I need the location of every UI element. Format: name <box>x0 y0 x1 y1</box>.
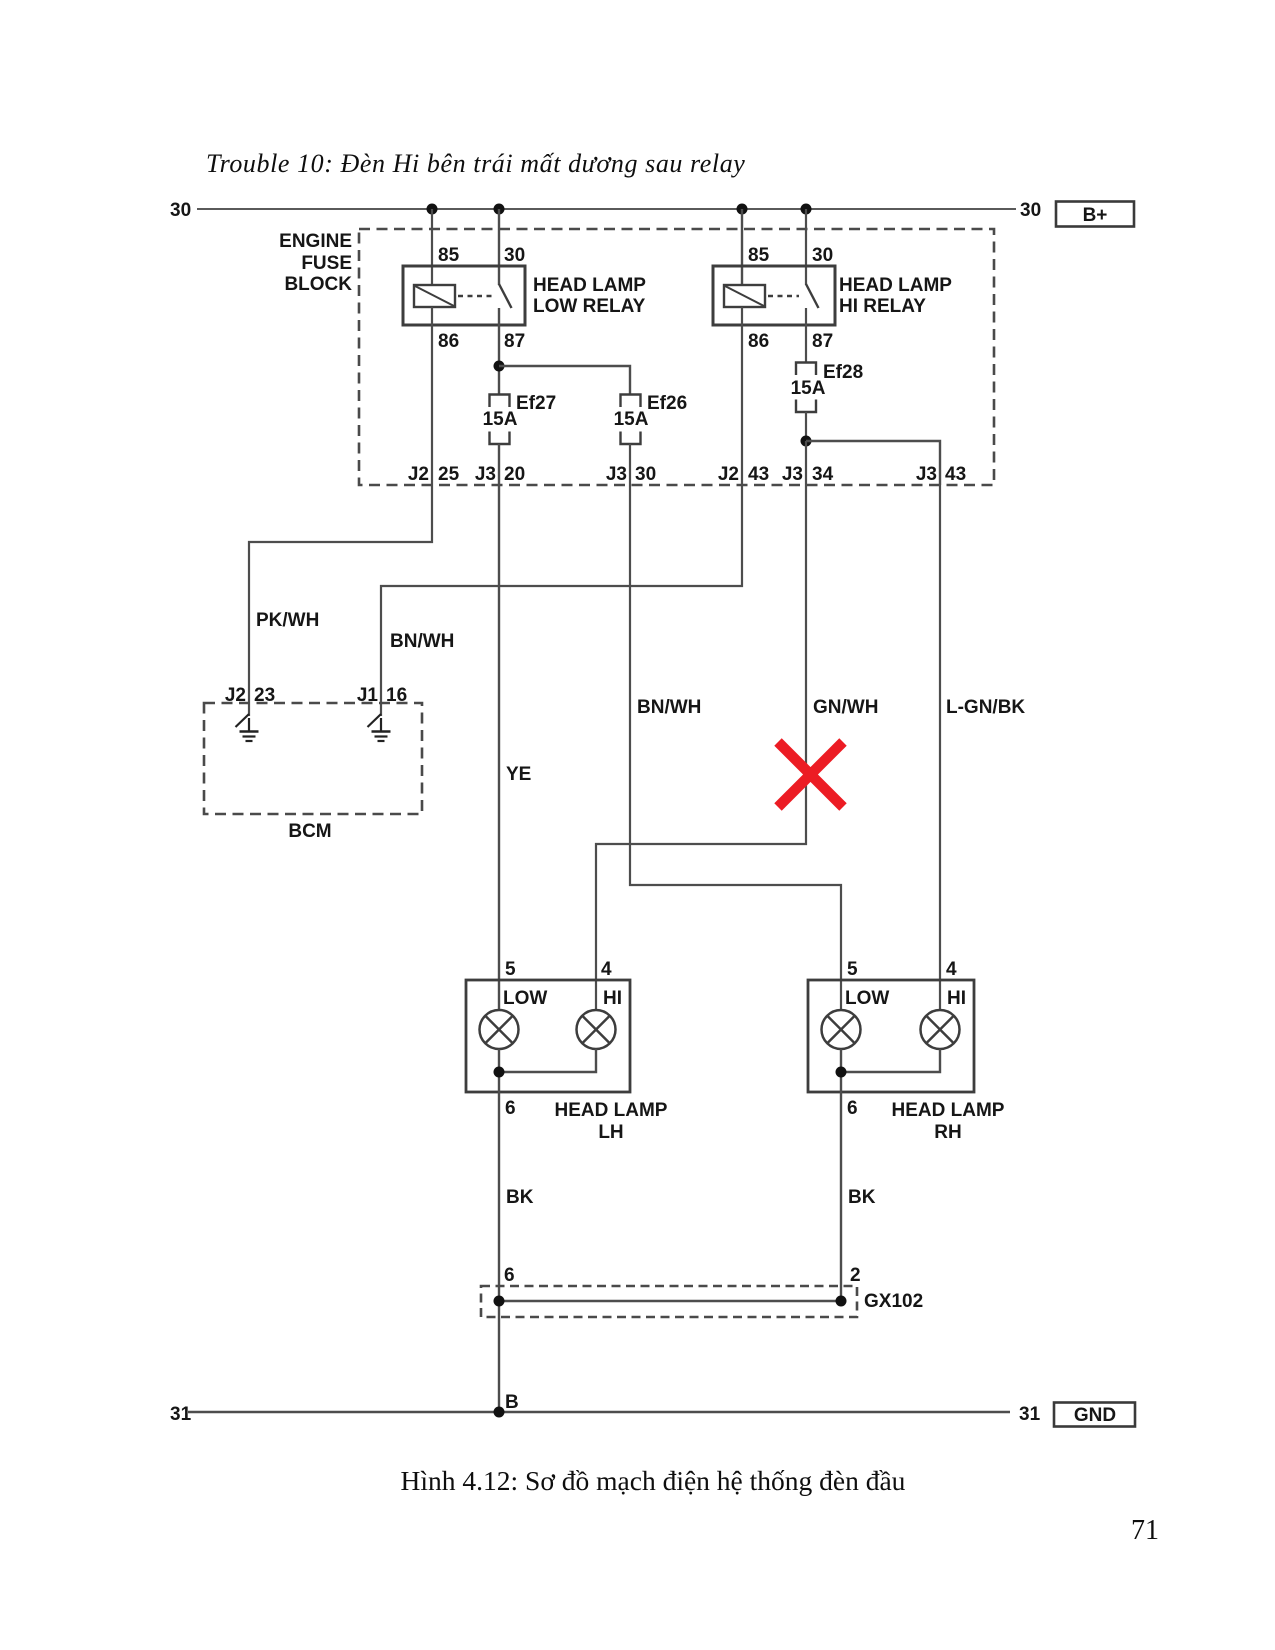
wire YE: fuse Ef27 (J3/20) down to LH LOW lamp <box>498 444 500 1011</box>
svg-text:GN/WH: GN/WH <box>813 697 878 718</box>
svg-text:15A: 15A <box>791 378 826 399</box>
svg-text:FUSE: FUSE <box>301 253 352 274</box>
svg-text:Hình 4.12: Sơ đồ mạch điện hệ: Hình 4.12: Sơ đồ mạch điện hệ thống đèn … <box>401 1465 906 1496</box>
svg-text:B+: B+ <box>1083 205 1108 226</box>
svg-text:ENGINE: ENGINE <box>279 231 352 252</box>
BCM dashed box <box>204 703 422 814</box>
svg-text:BN/WH: BN/WH <box>637 697 701 718</box>
wire RH LOW lamp to pin 6 / GX102 <box>840 1049 842 1301</box>
wire LH LOW lamp to pin 6 / GX102 / ground rail <box>498 1049 500 1412</box>
BCM internal switch + ground at J1/16 <box>368 714 382 727</box>
svg-text:BLOCK: BLOCK <box>284 274 352 295</box>
svg-text:30: 30 <box>504 245 525 266</box>
svg-text:23: 23 <box>254 685 275 706</box>
svg-text:J2: J2 <box>718 464 739 485</box>
svg-text:5: 5 <box>505 959 516 980</box>
splice GX102 dashed box <box>481 1286 857 1317</box>
fault mark red X on GN/WH wire <box>778 742 843 807</box>
fuse Ef26 15A <box>621 395 641 408</box>
svg-text:J3: J3 <box>606 464 627 485</box>
svg-text:86: 86 <box>748 331 769 352</box>
svg-text:J2: J2 <box>408 464 429 485</box>
svg-text:J3: J3 <box>916 464 937 485</box>
relay K1 coil <box>414 285 455 307</box>
wire branch junction to fuse Ef26 <box>499 366 630 395</box>
svg-text:BN/WH: BN/WH <box>390 631 454 652</box>
RH LOW lamp <box>822 1010 861 1049</box>
svg-text:Trouble 10: Đèn Hi bên trái mấ: Trouble 10: Đèn Hi bên trái mất dương sa… <box>206 149 745 178</box>
GND box <box>1054 1403 1135 1427</box>
relay K2 contact arm <box>806 284 819 308</box>
junction RH common <box>836 1067 847 1078</box>
svg-text:30: 30 <box>170 200 191 221</box>
svg-text:30: 30 <box>635 464 656 485</box>
svg-text:J3: J3 <box>475 464 496 485</box>
junction on rail at relay U2 pin30 wire <box>801 204 812 215</box>
wire RH HI lamp bottom to common <box>841 1049 940 1072</box>
svg-text:L-GN/BK: L-GN/BK <box>946 697 1025 718</box>
svg-text:43: 43 <box>748 464 769 485</box>
svg-text:RH: RH <box>934 1122 961 1143</box>
node 31 ground rail <box>188 1411 1010 1413</box>
fuse Ef27 15A <box>490 395 510 408</box>
svg-text:Ef26: Ef26 <box>647 393 687 414</box>
svg-text:15A: 15A <box>614 409 649 430</box>
wire rail to relay K1 pin 85 <box>431 209 433 285</box>
wire K2 pin87 to fuse Ef28 <box>805 308 807 363</box>
svg-text:16: 16 <box>386 685 407 706</box>
svg-text:34: 34 <box>812 464 834 485</box>
svg-text:LOW: LOW <box>503 988 547 1009</box>
RH HI lamp <box>921 1010 960 1049</box>
svg-text:HEAD LAMP: HEAD LAMP <box>533 275 646 296</box>
svg-text:J2: J2 <box>225 685 246 706</box>
svg-text:Ef28: Ef28 <box>823 362 863 383</box>
GX102 internal bus wire <box>499 1300 841 1303</box>
svg-text:87: 87 <box>504 331 525 352</box>
junction ground rail <box>494 1407 505 1418</box>
svg-text:86: 86 <box>438 331 459 352</box>
svg-text:GND: GND <box>1074 1405 1116 1426</box>
svg-text:6: 6 <box>505 1098 516 1119</box>
svg-text:5: 5 <box>847 959 858 980</box>
junction GX102 left <box>494 1296 505 1307</box>
svg-text:20: 20 <box>504 464 525 485</box>
wire branch junction to J3/43 <box>806 441 940 485</box>
junction on rail at relay U1 pin85 wire <box>427 204 438 215</box>
LH HI lamp <box>577 1010 616 1049</box>
svg-text:HI: HI <box>947 988 966 1009</box>
ENGINE FUSE BLOCK dashed enclosure <box>359 229 994 485</box>
svg-text:HEAD LAMP: HEAD LAMP <box>555 1100 668 1121</box>
svg-text:2: 2 <box>850 1265 861 1286</box>
wire K2 86 (J2/43) to BCM J1/16, BN/WH <box>381 307 742 716</box>
svg-text:GX102: GX102 <box>864 1291 923 1312</box>
relay K2 HEAD LAMP HI RELAY box <box>713 266 835 325</box>
svg-text:85: 85 <box>438 245 460 266</box>
wire K1 pin87 to junction <box>498 308 500 395</box>
svg-text:BK: BK <box>506 1187 534 1208</box>
junction on rail at relay U2 pin85 wire <box>737 204 748 215</box>
svg-text:B: B <box>505 1392 519 1413</box>
svg-text:LOW RELAY: LOW RELAY <box>533 296 646 317</box>
svg-text:6: 6 <box>847 1098 858 1119</box>
wire rail to relay K2 pin 85 <box>741 209 743 285</box>
HEAD LAMP RH box <box>808 980 974 1092</box>
relay K1 HEAD LAMP LOW RELAY box <box>403 266 525 325</box>
relay K1 contact arm <box>499 284 512 308</box>
node 30 power rail <box>197 208 1016 210</box>
svg-text:85: 85 <box>748 245 770 266</box>
svg-text:30: 30 <box>812 245 833 266</box>
svg-text:YE: YE <box>506 764 531 785</box>
wire Ef28 to junction <box>805 412 807 441</box>
wire BN/WH: fuse Ef26 (J3/30) down to RH LOW lamp <box>630 444 841 1011</box>
wire rail to relay K1 pin 30 <box>498 209 500 285</box>
svg-text:J3: J3 <box>782 464 803 485</box>
junction on rail at relay U1 pin30 wire <box>494 204 505 215</box>
HEAD LAMP LH box <box>466 980 630 1092</box>
svg-text:J1: J1 <box>357 685 379 706</box>
svg-text:25: 25 <box>438 464 460 485</box>
svg-text:15A: 15A <box>483 409 518 430</box>
svg-text:31: 31 <box>1019 1404 1041 1425</box>
svg-text:71: 71 <box>1131 1515 1159 1546</box>
svg-text:BCM: BCM <box>288 821 331 842</box>
BCM internal switch + ground at J2/23 <box>236 714 250 727</box>
B+ supply box <box>1056 202 1134 227</box>
svg-text:HEAD LAMP: HEAD LAMP <box>892 1100 1005 1121</box>
junction below fuse Ef28 <box>801 436 812 447</box>
svg-text:BK: BK <box>848 1187 876 1208</box>
svg-text:LOW: LOW <box>845 988 889 1009</box>
svg-text:HI: HI <box>603 988 622 1009</box>
wire K1 86 (J2/25) to BCM J2/23, PK/WH <box>249 307 432 716</box>
wire GN/WH: J3/34 down to LH HI lamp <box>596 441 806 1011</box>
svg-text:30: 30 <box>1020 200 1041 221</box>
svg-text:LH: LH <box>598 1122 623 1143</box>
svg-text:Ef27: Ef27 <box>516 393 556 414</box>
junction below K1 pin 87 <box>494 361 505 372</box>
relay K2 coil-contact dashed link <box>768 295 799 297</box>
svg-text:HI RELAY: HI RELAY <box>839 296 926 317</box>
fuse Ef28 15A <box>796 363 816 376</box>
LH LOW lamp <box>480 1010 519 1049</box>
svg-text:6: 6 <box>504 1265 515 1286</box>
relay K1 coil-contact dashed link <box>458 295 492 297</box>
wire LH HI lamp bottom to common <box>499 1049 596 1072</box>
junction LH common <box>494 1067 505 1078</box>
svg-text:43: 43 <box>945 464 966 485</box>
junction GX102 right <box>836 1296 847 1307</box>
relay K2 coil <box>724 285 765 307</box>
svg-text:4: 4 <box>946 959 957 980</box>
svg-text:87: 87 <box>812 331 833 352</box>
wire rail to relay K2 pin 30 <box>805 209 807 285</box>
svg-text:HEAD LAMP: HEAD LAMP <box>839 275 952 296</box>
wire L-GN/BK: J3/43 down to RH HI lamp <box>939 485 941 1011</box>
svg-text:4: 4 <box>601 959 612 980</box>
svg-text:PK/WH: PK/WH <box>256 610 319 631</box>
svg-text:31: 31 <box>170 1404 192 1425</box>
